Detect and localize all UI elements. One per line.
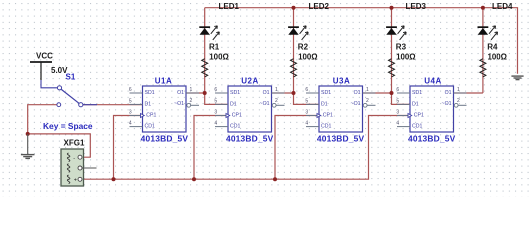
svg-text:R3: R3 [396,42,407,51]
svg-text:U3A: U3A [333,76,351,85]
svg-text:S1: S1 [66,73,76,82]
svg-text:LED4: LED4 [492,2,513,11]
svg-text:LED2: LED2 [309,2,330,11]
svg-text:-: - [73,155,75,161]
svg-text:R2: R2 [298,42,309,51]
svg-text:R1: R1 [209,42,220,51]
svg-text:LED3: LED3 [406,2,427,11]
svg-text:4013BD_5V: 4013BD_5V [226,134,274,144]
svg-text:U2A: U2A [241,76,259,85]
svg-text:LED1: LED1 [219,2,240,11]
svg-text:U4A: U4A [424,76,442,85]
svg-text:Key = Space: Key = Space [43,121,93,131]
svg-text:4013BD_5V: 4013BD_5V [141,134,189,144]
svg-text:U1A: U1A [155,76,173,85]
svg-text:XFG1: XFG1 [64,139,85,148]
svg-text:R4: R4 [487,42,498,51]
svg-text:4013BD_5V: 4013BD_5V [317,134,365,144]
svg-text:VCC: VCC [36,51,53,60]
svg-text:4013BD_5V: 4013BD_5V [408,134,456,144]
svg-text:+: + [74,178,77,184]
